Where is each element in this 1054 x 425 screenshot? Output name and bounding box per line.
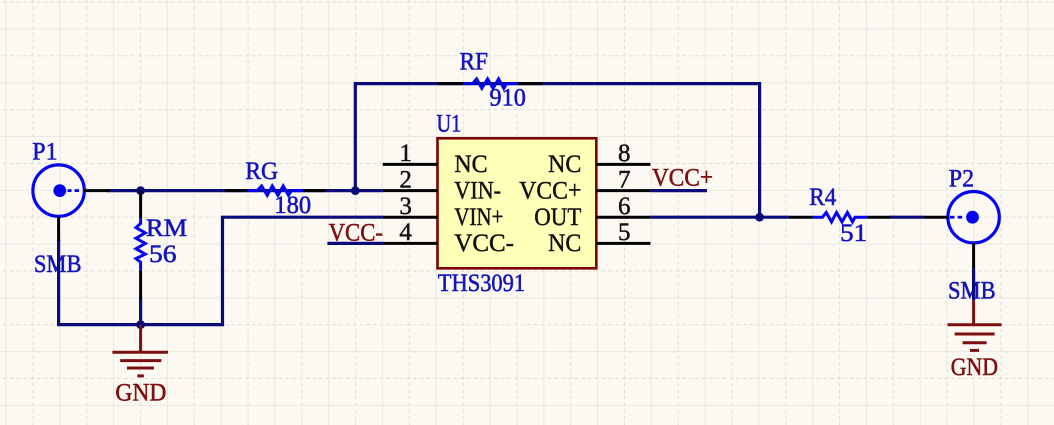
svg-text:SMB: SMB xyxy=(948,277,996,304)
svg-text:RM: RM xyxy=(146,215,187,242)
wire P2 to GND port xyxy=(972,269,975,301)
wire feedback loop top (RF branch) xyxy=(355,84,759,218)
svg-text:51: 51 xyxy=(840,220,867,247)
pin 8 xyxy=(596,163,650,166)
svg-text:GND: GND xyxy=(115,380,166,407)
svg-text:2: 2 xyxy=(399,166,412,193)
svg-text:NC: NC xyxy=(548,230,581,257)
wire pin 7 to VCC+ xyxy=(650,189,707,192)
wire OUT to R4 xyxy=(650,216,789,219)
svg-text:P2: P2 xyxy=(949,165,974,192)
svg-text:VIN-: VIN- xyxy=(454,177,501,204)
svg-text:7: 7 xyxy=(618,166,631,193)
pin 1 xyxy=(383,163,438,166)
pin 2 xyxy=(383,189,438,192)
svg-text:NC: NC xyxy=(454,151,487,178)
svg-text:THS3091: THS3091 xyxy=(438,270,525,297)
svg-text:GND: GND xyxy=(951,354,998,381)
svg-text:NC: NC xyxy=(548,151,581,178)
wire VCC- to pin 4 xyxy=(327,242,382,245)
svg-text:5: 5 xyxy=(618,219,631,246)
pin 6 xyxy=(596,216,650,219)
svg-text:RG: RG xyxy=(245,158,278,185)
svg-text:1: 1 xyxy=(399,140,412,167)
svg-text:VIN+: VIN+ xyxy=(454,204,503,231)
svg-text:VCC+: VCC+ xyxy=(519,177,581,204)
svg-text:6: 6 xyxy=(618,193,631,220)
pin 3 xyxy=(383,216,438,219)
svg-text:180: 180 xyxy=(274,192,311,219)
connector P1 xyxy=(33,165,109,241)
resistor RG xyxy=(225,186,326,195)
ground GND right xyxy=(948,300,1002,350)
svg-text:4: 4 xyxy=(399,219,412,246)
svg-text:3: 3 xyxy=(399,193,412,220)
wire R4 to P2 xyxy=(890,216,925,219)
op-amp U1 body xyxy=(438,138,597,268)
svg-text:56: 56 xyxy=(149,241,177,268)
svg-text:OUT: OUT xyxy=(534,204,581,231)
resistor RM xyxy=(136,191,145,300)
svg-text:U1: U1 xyxy=(437,111,462,138)
wire P1 to RG and pin 2 xyxy=(107,189,383,192)
pin 4 xyxy=(383,242,438,245)
svg-text:RF: RF xyxy=(460,48,489,75)
svg-text:910: 910 xyxy=(490,85,526,112)
svg-text:R4: R4 xyxy=(809,184,836,211)
wire RM bottom to GND junction xyxy=(139,298,142,325)
resistor R4 xyxy=(789,213,890,222)
connector P2 xyxy=(925,192,1000,269)
svg-text:VCC+: VCC+ xyxy=(652,164,713,191)
wire VIN+ loop bottom xyxy=(59,217,383,324)
ground GND left xyxy=(112,325,168,376)
pin 7 xyxy=(596,189,650,192)
svg-text:P1: P1 xyxy=(32,138,57,165)
junction J4 xyxy=(136,320,145,329)
junction J2 xyxy=(351,186,360,195)
junction J3 xyxy=(755,213,764,222)
svg-text:8: 8 xyxy=(618,140,631,167)
junction J1 xyxy=(136,186,145,195)
pin 5 xyxy=(596,242,650,245)
resistor RF xyxy=(438,79,542,88)
svg-text:VCC-: VCC- xyxy=(454,230,514,257)
svg-text:VCC-: VCC- xyxy=(329,219,383,246)
